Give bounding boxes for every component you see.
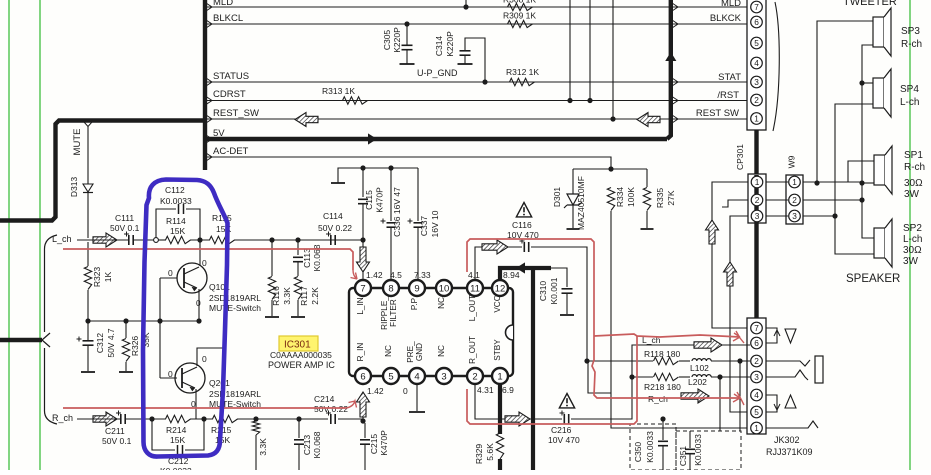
wire thick bus right vertical: [667, 0, 671, 139]
capacitor C113 K0.068: [297, 240, 299, 255]
svg-text:2: 2: [754, 95, 759, 105]
svg-text:CP301: CP301: [735, 144, 745, 170]
wire R_IN rise: [362, 393, 364, 419]
wire stub x570: [569, 0, 571, 101]
svg-text:STAT: STAT: [718, 72, 741, 83]
node CDRST x570: [567, 98, 572, 103]
speaker SP4: [873, 78, 884, 108]
capacitor C310 K0.001: [551, 268, 567, 287]
pin 10 IC301: [436, 280, 452, 296]
node R_ch x256: [253, 416, 258, 421]
connector W9 pin 3: [789, 210, 801, 222]
pin 11 IC301: [467, 280, 483, 296]
svg-text:IC301: IC301: [284, 340, 311, 351]
wire red L_ch input highlight: [63, 249, 353, 270]
wire W9 pin1 line: [803, 181, 862, 183]
ground pin4: [416, 384, 418, 411]
svg-text:C113: C113: [302, 248, 312, 268]
resistor R323 1K: [87, 242, 89, 266]
svg-text:R308 1K: R308 1K: [503, 0, 536, 5]
arrow R_ch input: [93, 412, 117, 426]
svg-text:1: 1: [754, 423, 759, 433]
svg-text:STBY: STBY: [493, 339, 502, 361]
wire red L_OUT highlight: [467, 239, 740, 398]
jack contact triangle down: [785, 329, 796, 343]
capacitor C314 K220P: [465, 38, 485, 82]
svg-text:1: 1: [755, 177, 760, 187]
svg-text:R117: R117: [299, 286, 309, 306]
bus taps left: [206, 3, 212, 11]
svg-text:REST SW: REST SW: [696, 108, 739, 119]
wire stub x590: [589, 0, 591, 101]
arrow to JK pin6: [694, 338, 722, 352]
jack ring contact pin3: [766, 370, 808, 380]
jack contact triangle up: [785, 395, 796, 408]
inductor L102: [692, 359, 711, 361]
svg-text:1.42: 1.42: [367, 386, 384, 396]
ground U-P_GND left stub: [400, 63, 415, 65]
svg-text:27K: 27K: [666, 190, 676, 205]
svg-text:50V 0.22: 50V 0.22: [318, 223, 352, 233]
svg-text:C215: C215: [369, 434, 379, 455]
node L_ch x298: [295, 237, 300, 242]
capacitor C211 50V 0.1: [120, 414, 122, 424]
wire SP3 bottom / SP4 top chain: [862, 45, 874, 238]
svg-text:R329: R329: [474, 444, 484, 465]
capacitor C212 K0.0033 loop: [152, 419, 175, 450]
svg-text:2: 2: [472, 371, 477, 382]
wire CP301 pin3 to JK pin5: [730, 216, 750, 412]
svg-text:15K: 15K: [170, 435, 185, 445]
capacitor C112 K0.0033 loop: [156, 209, 176, 238]
wire thick audio input feed: [0, 338, 42, 342]
node R114-R115: [197, 237, 202, 242]
wire thick CN to CP301: [754, 130, 758, 175]
wire R218 line: [632, 376, 653, 378]
svg-text:5.6K: 5.6K: [485, 443, 495, 461]
svg-text:10V 470: 10V 470: [548, 435, 580, 445]
svg-text:3: 3: [754, 372, 759, 382]
svg-text:8.94: 8.94: [503, 270, 520, 280]
svg-text:4.5: 4.5: [390, 270, 402, 280]
svg-text:SPEAKER: SPEAKER: [846, 273, 900, 285]
svg-text:VCC: VCC: [493, 295, 502, 312]
svg-text:30Ω: 30Ω: [904, 178, 923, 189]
resistor R117 2.2K: [297, 262, 299, 276]
bus taps right: [672, 3, 678, 11]
svg-text:C116: C116: [512, 220, 532, 230]
svg-text:5V: 5V: [213, 128, 225, 139]
svg-text:2: 2: [792, 195, 797, 205]
svg-text:C351: C351: [678, 446, 688, 467]
wire input bracket: [44, 235, 57, 424]
svg-text:L_IN: L_IN: [356, 297, 365, 314]
svg-text:3: 3: [792, 211, 797, 221]
svg-text:0: 0: [196, 298, 201, 308]
svg-text:1: 1: [792, 177, 797, 187]
svg-text:MUTE-Switch: MUTE-Switch: [209, 303, 261, 313]
node pin3 JK: [717, 374, 722, 379]
arrow R_OUT right: [505, 412, 530, 426]
node R_ch x363: [360, 418, 365, 423]
wire Q101 collector: [199, 240, 201, 266]
svg-text:C211: C211: [105, 426, 125, 436]
arrow link vertical x712: [706, 220, 719, 244]
svg-text:P.P: P.P: [410, 297, 419, 310]
svg-text:JK302: JK302: [774, 435, 800, 445]
svg-text:9: 9: [414, 283, 419, 294]
svg-text:C114: C114: [323, 211, 343, 221]
wire SP1 top: [848, 161, 874, 182]
wire Q201 emitter: [195, 389, 197, 419]
connector W9: [786, 175, 803, 224]
arrow VCC direction left: [516, 262, 525, 273]
svg-text:K0.0033: K0.0033: [645, 431, 655, 463]
svg-text:L102: L102: [690, 363, 709, 373]
node L_OUT R118: [584, 358, 589, 363]
svg-text:C216: C216: [551, 425, 572, 435]
svg-text:AC-DET: AC-DET: [213, 146, 249, 157]
svg-text:C310: C310: [538, 281, 548, 302]
connector CN pin 2: [751, 94, 763, 106]
diode D313: [87, 126, 89, 184]
svg-text:R218 180: R218 180: [644, 382, 681, 392]
svg-text:4: 4: [754, 390, 759, 400]
connector CP301 pin 3: [751, 210, 763, 222]
svg-text:C214: C214: [314, 394, 335, 404]
wire Q201 collector: [197, 348, 225, 366]
wire pin2 node down: [739, 361, 741, 431]
speaker SP2: [874, 228, 885, 258]
arrow L_OUT right: [482, 240, 508, 254]
node MLD x466: [463, 4, 468, 9]
connector JK302 pin 4: [751, 389, 763, 401]
arrow into pin7: [357, 247, 370, 272]
diode D313 tap: [84, 122, 92, 127]
svg-text:16V 10: 16V 10: [430, 210, 440, 237]
wire bias node rail: [88, 320, 199, 322]
transistor Q201 2SD1819ARL: [175, 363, 205, 393]
svg-text:15K: 15K: [170, 226, 185, 236]
annotation blue loop: [143, 180, 228, 457]
svg-text:RJJ371K09: RJJ371K09: [766, 447, 813, 457]
node audio input fork: [42, 333, 50, 340]
pin 3 IC301: [436, 368, 452, 384]
capacitor C115 K470P: [362, 168, 364, 197]
wire base rail Q101-Q201: [159, 278, 161, 378]
svg-text:MLD: MLD: [721, 0, 741, 9]
svg-text:R313 1K: R313 1K: [322, 86, 355, 96]
wire CP301 pin1 to JK pin7: [712, 182, 750, 328]
wire W9 pin2 line: [803, 199, 862, 201]
node R214-R215: [201, 416, 206, 421]
svg-text:MLD: MLD: [213, 0, 233, 8]
svg-text:1: 1: [754, 114, 759, 124]
pin 8 IC301: [383, 280, 399, 296]
svg-text:K0.0033: K0.0033: [160, 466, 192, 470]
svg-text:1: 1: [497, 371, 502, 382]
ground U-P_GND right stub: [458, 63, 473, 65]
capacitor C305 K220P: [406, 24, 408, 45]
svg-text:0: 0: [202, 354, 207, 364]
svg-text:C336 16V 47: C336 16V 47: [392, 187, 402, 237]
op-amp IC301 POWER AMP IC body: [349, 288, 513, 376]
node C216 C350: [660, 416, 665, 421]
svg-text:10: 10: [439, 283, 450, 294]
wire R_OUT via C216: [475, 384, 562, 419]
wire W9 pin3 line: [803, 215, 835, 217]
resistor R215 15K: [213, 415, 238, 422]
svg-text:SP3: SP3: [901, 26, 920, 37]
wire red C216 loop: [467, 336, 637, 424]
wire SP3 top to W9 pin1: [817, 21, 873, 183]
green rule left 1: [8, 0, 10, 470]
resistor R312 1K: [510, 78, 535, 85]
svg-text:R334: R334: [615, 187, 625, 208]
jack switch pins 4-5: [766, 395, 777, 412]
node L_ch x270: [269, 237, 274, 242]
inductor L202: [692, 375, 711, 377]
connector JK302 pin 6: [751, 337, 763, 349]
svg-text:L-ch: L-ch: [900, 97, 919, 108]
resistor R308 1K: [508, 3, 533, 10]
capacitor C336 16V 47: [390, 168, 392, 221]
svg-text:L_OUT: L_OUT: [468, 295, 477, 321]
wire pin3 node down: [719, 377, 721, 431]
arrow into pin6: [357, 392, 370, 417]
svg-text:4: 4: [754, 58, 759, 68]
svg-text:U-P_GND: U-P_GND: [417, 68, 458, 78]
svg-text:30Ω: 30Ω: [903, 245, 922, 256]
svg-text:C0AAAA000035: C0AAAA000035: [270, 350, 332, 360]
svg-text:3: 3: [441, 371, 446, 382]
svg-text:C350: C350: [633, 442, 643, 463]
resistor R326 35K: [125, 321, 127, 338]
node pin2 JK: [737, 358, 742, 363]
svg-text:R_ch: R_ch: [648, 394, 668, 404]
pin 6 IC301: [355, 368, 371, 384]
wire CP301 pin2 stub: [722, 200, 748, 207]
node L_ch x363: [360, 237, 365, 242]
wire MLD: [207, 6, 747, 8]
svg-text:1.42: 1.42: [366, 270, 383, 280]
svg-text:C112: C112: [165, 185, 185, 195]
connector W9 pin 2: [789, 194, 801, 206]
svg-text:R118 180: R118 180: [644, 349, 681, 359]
wire R334 net down: [611, 211, 747, 428]
svg-text:7.33: 7.33: [414, 270, 431, 280]
pin 4 IC301: [409, 368, 425, 384]
svg-text:SP1: SP1: [904, 150, 923, 161]
svg-text:BLKCL: BLKCL: [213, 13, 243, 24]
svg-text:TWEETER: TWEETER: [843, 0, 897, 8]
svg-text:L_ch: L_ch: [52, 234, 72, 244]
wire STATUS: [207, 81, 747, 83]
connector JK302 pin 1: [751, 422, 763, 434]
wire CDRST: [207, 100, 747, 102]
resistor R115 15K: [210, 236, 235, 243]
svg-text:K220P: K220P: [445, 31, 455, 57]
jack contact pin1: [766, 421, 818, 428]
svg-text:6.9: 6.9: [502, 385, 514, 395]
svg-text:5: 5: [388, 371, 393, 382]
svg-text:W9: W9: [787, 155, 797, 168]
pin 7 IC301: [355, 280, 371, 296]
capacitor C337 16V 10: [417, 168, 419, 221]
svg-text:C115: C115: [364, 190, 374, 210]
svg-text:R214: R214: [166, 425, 187, 435]
svg-text:/RST: /RST: [717, 90, 739, 101]
arrow link REST SW right: [637, 113, 660, 127]
wire jog L_OUT to R334 net: [588, 361, 611, 393]
svg-text:STATUS: STATUS: [213, 71, 249, 82]
capacitor C216 10V 470: [563, 414, 565, 424]
wire red R_ch input highlight: [63, 407, 346, 409]
speaker SP1: [874, 155, 885, 185]
wire stub x613: [612, 0, 614, 119]
wire AC-DET: [207, 157, 611, 169]
wire thick VCC down: [531, 268, 535, 470]
svg-text:0: 0: [403, 386, 408, 396]
arrow link vertical x730: [724, 262, 737, 286]
connector JK302 pin 2: [751, 355, 763, 367]
resistor R313 1K: [343, 97, 368, 104]
svg-text:0: 0: [168, 369, 173, 379]
resistor R335 27K: [646, 169, 648, 187]
svg-text:2SD1819ARL: 2SD1819ARL: [209, 293, 261, 303]
connector CN pin 7: [751, 1, 763, 13]
node R214 left: [149, 416, 154, 421]
svg-text:K470P: K470P: [375, 187, 385, 213]
svg-text:R312 1K: R312 1K: [506, 67, 539, 77]
green rule left 2: [39, 0, 41, 470]
wire AC-DET rail: [573, 168, 647, 170]
wire REST_SW: [207, 118, 747, 120]
capacitor C312 50V 4.7: [87, 321, 89, 340]
connector JK302 pin 7: [751, 322, 763, 334]
connector CN bracket: [773, 2, 779, 131]
svg-text:100K: 100K: [626, 187, 636, 207]
svg-text:R-ch: R-ch: [904, 162, 925, 173]
svg-text:3W: 3W: [904, 189, 920, 200]
svg-text:R309 1K: R309 1K: [503, 11, 536, 21]
svg-text:R114: R114: [166, 216, 186, 226]
capacitor C213 K0.068: [298, 419, 300, 438]
svg-text:R-ch: R-ch: [901, 39, 922, 50]
wire SP4 top stub: [862, 82, 873, 84]
svg-text:L202: L202: [688, 377, 707, 387]
svg-text:7: 7: [754, 323, 759, 333]
svg-text:L-ch: L-ch: [903, 234, 922, 245]
svg-text:15K: 15K: [215, 435, 230, 445]
svg-text:50V 0.22: 50V 0.22: [314, 404, 348, 414]
jack switch pins 7-6: [766, 328, 777, 343]
wire thick VCC pin12: [500, 268, 551, 281]
svg-text:2SD1819ARL: 2SD1819ARL: [209, 389, 261, 399]
svg-text:3: 3: [755, 211, 760, 221]
green rule right: [909, 0, 911, 470]
label IC301 highlighted: [279, 336, 318, 351]
svg-text:5: 5: [754, 407, 759, 417]
connector CP301: [748, 174, 766, 223]
svg-text:6: 6: [360, 371, 365, 382]
node REST_SW x613: [610, 116, 615, 121]
connector CP301 pin 1: [751, 176, 763, 188]
wire Q101 emitter: [198, 289, 200, 321]
svg-text:MAZ40510MF: MAZ40510MF: [576, 176, 586, 230]
svg-text:6: 6: [754, 17, 759, 27]
svg-text:50V 0.1: 50V 0.1: [110, 223, 140, 233]
svg-text:FILTER: FILTER: [389, 299, 398, 327]
wire L_IN drop: [362, 240, 364, 279]
svg-text:R335: R335: [655, 188, 665, 209]
capacitor C116 10V 470: [523, 242, 525, 252]
wire L_OUT via C116: [475, 247, 522, 279]
svg-text:12: 12: [495, 283, 506, 294]
svg-text:4.1: 4.1: [468, 270, 480, 280]
svg-text:K0.0033: K0.0033: [693, 434, 703, 466]
wire thick mute feed: [0, 121, 205, 221]
resistor R214 15K: [166, 415, 191, 422]
svg-text:POWER AMP IC: POWER AMP IC: [268, 360, 335, 370]
svg-text:SP4: SP4: [900, 84, 919, 95]
capacitor C215 K470P: [364, 423, 366, 438]
svg-text:GND: GND: [415, 343, 424, 361]
wire BLKCL: [207, 23, 747, 25]
arrow 5V direction right: [368, 133, 377, 144]
wire red branch L_ch jack: [594, 334, 740, 337]
node CDRST x590: [587, 98, 592, 103]
connector CN top box: [747, 0, 766, 130]
resistor R116 3.3K: [271, 240, 273, 276]
svg-text:5: 5: [754, 38, 759, 48]
svg-text:K0.068: K0.068: [312, 431, 322, 458]
connector CP301 pin 2: [751, 194, 763, 206]
resistor R329 5.6K: [496, 433, 503, 459]
svg-text:0: 0: [168, 268, 173, 278]
svg-text:C337: C337: [419, 216, 429, 237]
svg-text:C111: C111: [115, 213, 134, 223]
svg-text:Q201: Q201: [209, 378, 230, 388]
svg-text:REST_SW: REST_SW: [213, 108, 259, 119]
arrow to JK pin4: [681, 389, 709, 403]
pin 12 IC301: [492, 280, 508, 296]
svg-text:7: 7: [360, 283, 365, 294]
svg-text:R323: R323: [92, 267, 102, 288]
jack tip contact pin2: [766, 360, 810, 366]
wire top cap rail: [338, 168, 418, 183]
wire R118 line: [587, 360, 653, 362]
svg-text:R326: R326: [130, 336, 140, 357]
svg-text:3W: 3W: [903, 256, 919, 267]
arrow link REST_SW left: [295, 113, 318, 127]
svg-text:D301: D301: [552, 187, 562, 208]
wire L_ch line: [77, 239, 128, 241]
svg-text:11: 11: [470, 283, 480, 294]
wire thick 5V horizontal: [207, 137, 667, 141]
svg-text:50V 4.7: 50V 4.7: [106, 328, 116, 358]
capacitor C350 K0.0033 dashed box: [630, 424, 676, 470]
connector JK302 pin 5: [751, 406, 763, 418]
svg-text:0: 0: [202, 258, 207, 268]
transistor Q101 2SD1819ARL: [177, 263, 207, 293]
svg-text:K470P: K470P: [379, 430, 389, 456]
wire thick STBY pin1 down: [498, 384, 502, 434]
svg-text:4: 4: [414, 371, 419, 382]
jack sleeve: [815, 356, 823, 383]
wire SP4 bottom to W9 pin3 chain: [835, 104, 874, 254]
connector CN pin 3: [751, 76, 763, 88]
